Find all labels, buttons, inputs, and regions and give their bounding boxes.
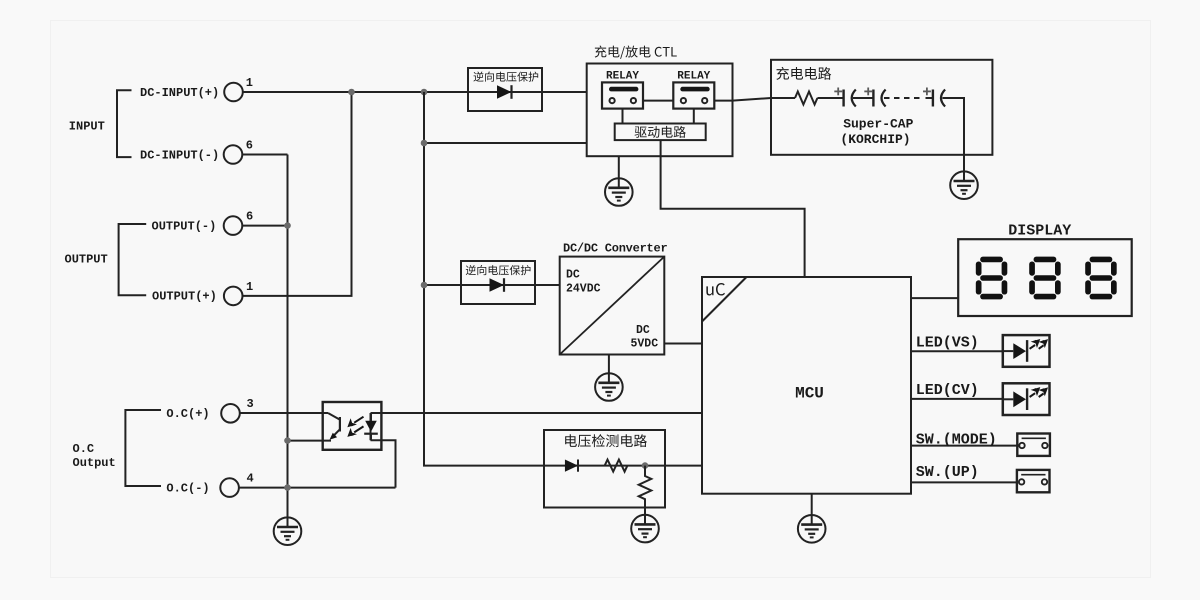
node J2 junction: [421, 89, 428, 96]
seven segment digit 1: [976, 257, 1008, 300]
ground G2 CTL: [605, 178, 633, 206]
wire C3 to ground G6: [943, 98, 965, 171]
wire R1 to C1: [817, 97, 843, 99]
svg-text:1: 1: [246, 76, 253, 90]
MCU block: [702, 277, 911, 494]
wire MCU to SW UP: [911, 481, 1017, 483]
wire through detection to MCU: [544, 465, 702, 467]
node J4 junction: [421, 140, 428, 147]
wire DC/DC to ground G3: [608, 355, 610, 374]
ground G3 converter: [595, 373, 623, 401]
ground G5 MCU: [798, 515, 826, 543]
ground G1 bottom of bus: [274, 517, 302, 545]
charge/discharge CTL block title: [595, 46, 677, 59]
svg-text:5VDC: 5VDC: [631, 337, 659, 350]
node J5 junction: [421, 282, 428, 289]
terminal O.C(-) pin 4: [166, 472, 253, 497]
diode D2: [490, 278, 505, 292]
resistor R3 vertical: [639, 466, 652, 515]
wire relay K1 to driver: [622, 109, 624, 124]
svg-text:3: 3: [247, 397, 254, 411]
svg-text:Output: Output: [73, 456, 116, 470]
terminal O.C(+) pin 3: [166, 397, 253, 423]
voltage detection block: [544, 430, 665, 508]
wire riser to reverse protection D2: [424, 284, 461, 286]
ground G4 detection: [631, 515, 659, 543]
node J7 junction: [284, 484, 291, 491]
terminal DC-INPUT(-) pin 6: [140, 139, 253, 164]
diode D1: [497, 85, 512, 99]
svg-text:SW.(MODE): SW.(MODE): [916, 432, 997, 449]
reverse voltage protection block 1: [468, 68, 542, 111]
wire DC-INPUT(+) to reverse protection D1: [243, 91, 468, 93]
wire MCU to ground G5: [811, 494, 813, 515]
capacitor C3 polarized: [923, 88, 945, 107]
svg-text:(KORCHIP): (KORCHIP): [840, 132, 910, 147]
wire bus to opto emitter: [288, 440, 332, 442]
wire 5VDC to MCU: [664, 343, 702, 345]
wire OUTPUT(+) riser to input bus: [243, 92, 352, 296]
svg-text:OUTPUT(-): OUTPUT(-): [152, 220, 217, 234]
node J1 junction: [348, 89, 355, 96]
wire into resistor R1: [771, 97, 795, 99]
svg-text:4: 4: [247, 472, 254, 486]
wire O.C(+) collector feed: [240, 412, 328, 414]
svg-text:LED(CV): LED(CV): [916, 382, 979, 399]
LED CV indicator: [1003, 383, 1050, 415]
svg-text:INPUT: INPUT: [69, 120, 105, 134]
wire through D1: [468, 91, 602, 93]
LED VS indicator: [1003, 335, 1050, 367]
capacitor C2 polarized: [864, 88, 885, 107]
node J3 junction: [284, 222, 291, 229]
svg-text:DISPLAY: DISPLAY: [1008, 223, 1071, 240]
svg-text:Super-CAP: Super-CAP: [843, 117, 913, 132]
svg-text:LED(VS): LED(VS): [916, 335, 979, 352]
wire DC-INPUT(-) into ground bus: [242, 154, 287, 156]
wire CTL to ground G2: [618, 156, 620, 178]
svg-text:RELAY: RELAY: [677, 71, 710, 83]
charge/discharge CTL block box: [587, 64, 733, 157]
wire opto LED top / output to MCU: [371, 412, 703, 414]
wire MCU to display: [911, 297, 958, 299]
ground G6 charging: [950, 171, 978, 199]
svg-text:O.C: O.C: [73, 442, 95, 456]
driver circuit box: [615, 124, 706, 141]
charging circuit block: [771, 60, 992, 155]
relay K1: [602, 71, 643, 109]
wire driver to MCU: [661, 140, 805, 277]
svg-text:SW.(UP): SW.(UP): [916, 464, 979, 481]
wire MCU to LED CV: [911, 398, 1003, 400]
svg-text:24VDC: 24VDC: [566, 283, 601, 296]
seven segment digit 3: [1085, 257, 1117, 300]
INPUT group label and bracket: [69, 90, 132, 157]
capacitor C1 polarized: [834, 88, 856, 107]
wire riser to CTL lower input: [424, 142, 587, 144]
wire relay link: [612, 100, 684, 102]
wire ground bus vertical: [287, 155, 289, 518]
wire O.C(-) line: [239, 487, 396, 489]
svg-text:6: 6: [246, 139, 253, 153]
wire OUTPUT(-) to bus: [242, 225, 287, 227]
svg-text:DC-INPUT(-): DC-INPUT(-): [140, 148, 219, 162]
svg-text:OUTPUT: OUTPUT: [65, 253, 108, 267]
svg-text:DC-INPUT(+): DC-INPUT(+): [140, 86, 219, 100]
switch SW MODE: [1017, 434, 1050, 456]
wire C1 to C2: [853, 97, 873, 99]
terminal OUTPUT(+) pin 1: [152, 280, 253, 305]
wire through D2 to DC/DC: [461, 284, 560, 286]
dashed series continuation: [884, 97, 924, 99]
optocoupler U4: [323, 402, 382, 450]
display block: [958, 239, 1131, 316]
wire MCU to SW MODE: [911, 445, 1017, 447]
svg-text:O.C(-): O.C(-): [166, 482, 209, 496]
Super-CAP (KORCHIP) label: [840, 117, 913, 148]
svg-text:DC/DC Converter: DC/DC Converter: [563, 242, 667, 256]
diode D3: [565, 459, 578, 471]
svg-text:6: 6: [246, 210, 253, 224]
terminal DC-INPUT(+) pin 1: [140, 76, 253, 101]
svg-text:OUTPUT(+): OUTPUT(+): [152, 290, 217, 304]
switch SW UP: [1017, 470, 1050, 492]
node J8 junction: [642, 462, 649, 469]
OUTPUT group label and bracket: [65, 224, 147, 295]
wire relay K2 out to charging circuit: [705, 98, 771, 101]
svg-text:MCU: MCU: [795, 384, 824, 402]
relay K2: [673, 71, 714, 109]
terminal OUTPUT(-) pin 6: [152, 210, 254, 235]
wire MCU to LED VS: [911, 350, 1003, 352]
resistor R1: [795, 92, 817, 105]
svg-text:DC: DC: [636, 324, 650, 337]
svg-text:RELAY: RELAY: [606, 71, 639, 83]
resistor R2: [605, 460, 628, 472]
svg-text:O.C(+): O.C(+): [166, 407, 209, 421]
svg-text:1: 1: [246, 280, 253, 294]
node J6 junction: [284, 437, 291, 444]
DC/DC converter block: [560, 257, 665, 355]
wire relay K2 to driver: [693, 109, 695, 124]
O.C Output group label and bracket: [73, 410, 162, 486]
seven segment digit 2: [1029, 257, 1061, 300]
svg-text:DC: DC: [566, 268, 580, 281]
wire LED cathode drop: [371, 440, 396, 487]
reverse voltage protection block 2: [461, 261, 535, 304]
wire feed riser x424 down to voltage detect: [424, 92, 544, 466]
